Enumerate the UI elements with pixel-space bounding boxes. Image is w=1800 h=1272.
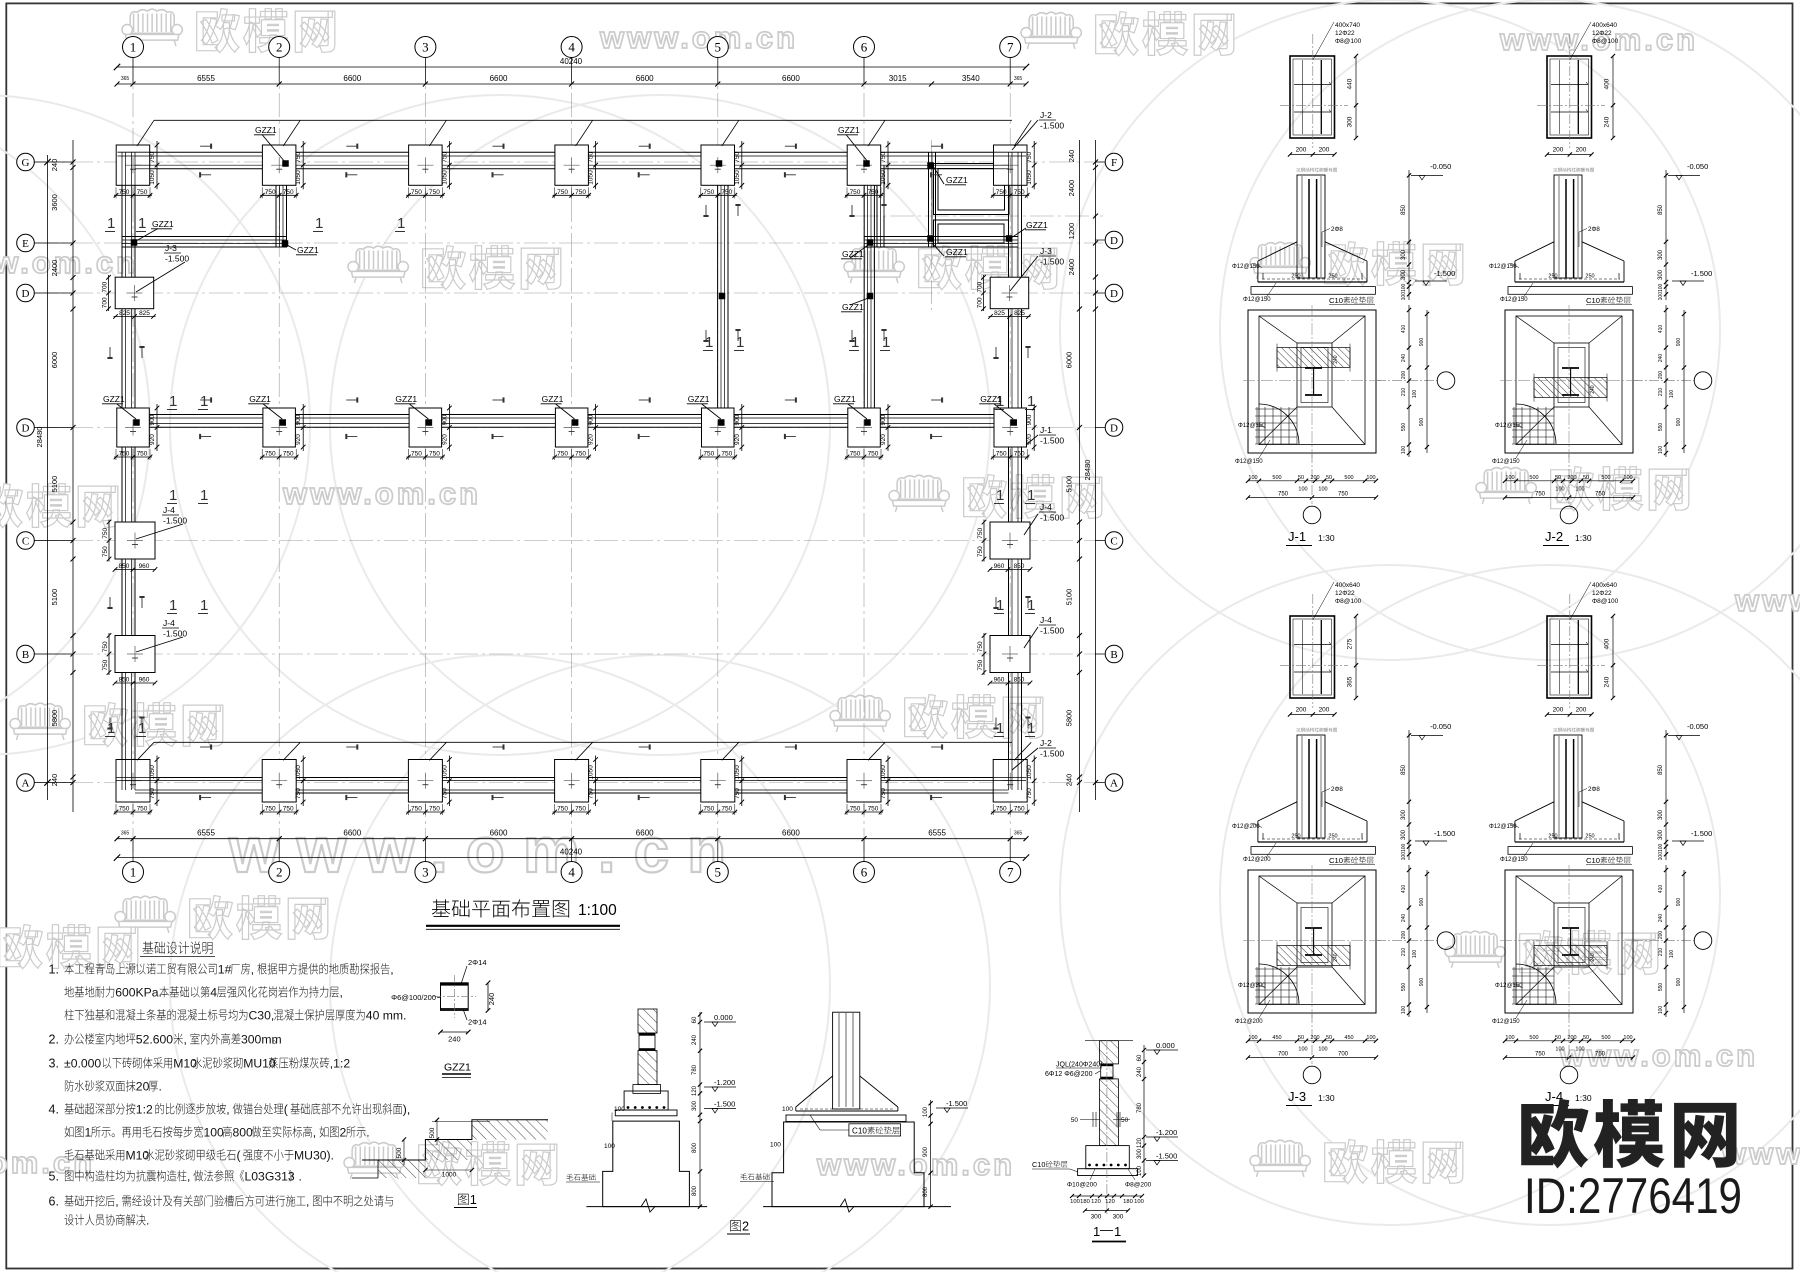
svg-text:850: 850	[119, 563, 130, 570]
svg-text:-1.500: -1.500	[1434, 269, 1455, 278]
svg-text:500: 500	[1529, 475, 1538, 481]
svg-text:240: 240	[1333, 953, 1339, 962]
svg-text:100: 100	[1401, 1006, 1407, 1015]
svg-text:Φ8@100: Φ8@100	[1335, 598, 1362, 605]
svg-text:750: 750	[137, 189, 148, 196]
svg-text:www.om.cn: www.om.cn	[816, 1147, 1015, 1182]
svg-text:(: (	[237, 1149, 241, 1163]
svg-text:Φ12@150: Φ12@150	[1243, 297, 1271, 303]
svg-text:,: ,	[390, 963, 393, 977]
svg-text:4: 4	[568, 40, 575, 55]
svg-text:240: 240	[448, 1035, 461, 1044]
svg-text:100: 100	[1623, 1035, 1632, 1041]
svg-text:750: 750	[283, 451, 294, 458]
svg-text:750: 750	[102, 659, 109, 670]
svg-text:200: 200	[1401, 931, 1407, 940]
svg-text:750: 750	[880, 151, 887, 162]
svg-text:100: 100	[1669, 950, 1675, 959]
svg-text:J-3: J-3	[1040, 246, 1052, 256]
svg-text:J-4: J-4	[163, 618, 175, 628]
svg-text:MU30).: MU30).	[294, 1149, 334, 1163]
svg-text:900: 900	[1026, 414, 1033, 425]
svg-text:750: 750	[721, 451, 732, 458]
svg-text:100: 100	[1366, 475, 1375, 481]
svg-text:700: 700	[977, 297, 984, 308]
svg-text:700: 700	[102, 281, 109, 292]
svg-text:1050: 1050	[149, 765, 156, 780]
svg-text:960: 960	[139, 677, 150, 684]
svg-text:750: 750	[1595, 1052, 1606, 1058]
svg-text:2Φ8: 2Φ8	[1331, 786, 1343, 793]
svg-text:28480: 28480	[35, 427, 44, 448]
svg-text:240: 240	[1137, 1066, 1143, 1077]
svg-text:750: 750	[721, 806, 732, 813]
svg-text:1050: 1050	[588, 765, 595, 780]
svg-text:1#: 1#	[218, 963, 232, 977]
svg-text:850: 850	[1014, 563, 1025, 570]
svg-text:2Φ8: 2Φ8	[1588, 786, 1600, 793]
svg-text:100: 100	[204, 1126, 225, 1140]
svg-text:6600: 6600	[490, 829, 508, 838]
svg-text:750: 750	[703, 806, 714, 813]
svg-text:750: 750	[1278, 492, 1289, 498]
svg-text:550: 550	[1658, 983, 1664, 992]
svg-text:240: 240	[50, 159, 59, 172]
svg-text:100: 100	[1555, 487, 1564, 493]
svg-text:240: 240	[692, 1034, 698, 1045]
svg-text:GZZ1: GZZ1	[395, 394, 417, 404]
svg-text:750: 750	[295, 788, 302, 799]
svg-text:1050: 1050	[441, 170, 448, 185]
svg-text:300: 300	[1658, 809, 1664, 820]
svg-text:www.om.cn: www.om.cn	[599, 20, 798, 55]
svg-text:www.om.cn: www.om.cn	[1559, 1038, 1758, 1073]
svg-text:-1.500: -1.500	[1691, 829, 1712, 838]
svg-text:750: 750	[588, 151, 595, 162]
svg-text:6000: 6000	[50, 352, 59, 369]
svg-text:-1.500: -1.500	[1156, 1152, 1177, 1161]
svg-text:920: 920	[149, 434, 156, 445]
svg-text:3: 3	[422, 865, 429, 880]
svg-text:300: 300	[1658, 249, 1664, 260]
svg-text:750: 750	[996, 806, 1007, 813]
svg-text:750: 750	[149, 788, 156, 799]
svg-text:Φ12@150: Φ12@150	[1495, 983, 1523, 989]
svg-text:240: 240	[1401, 354, 1407, 363]
svg-text:GZZ1: GZZ1	[103, 394, 125, 404]
svg-text:750: 750	[977, 659, 984, 670]
svg-text:,1:2: ,1:2	[330, 1057, 351, 1071]
svg-text:200: 200	[1553, 707, 1564, 714]
svg-text:100: 100	[923, 1106, 929, 1117]
svg-text:,: ,	[313, 1126, 316, 1140]
svg-text:700: 700	[102, 297, 109, 308]
svg-text:300: 300	[1091, 1214, 1102, 1221]
svg-text:1: 1	[138, 215, 146, 232]
svg-text:300: 300	[1401, 829, 1407, 840]
svg-text:750: 750	[411, 806, 422, 813]
svg-text:900: 900	[1676, 418, 1682, 427]
svg-text:B: B	[1110, 649, 1117, 661]
svg-text:5100: 5100	[50, 589, 59, 606]
svg-text:850: 850	[119, 677, 130, 684]
svg-text:500: 500	[1601, 475, 1610, 481]
svg-text:2Φ8: 2Φ8	[1588, 226, 1600, 233]
svg-text:1050: 1050	[295, 765, 302, 780]
svg-text:5100: 5100	[1065, 476, 1074, 493]
svg-text:12Φ22: 12Φ22	[1592, 30, 1612, 37]
svg-text:750: 750	[557, 806, 568, 813]
svg-text:100: 100	[1070, 1199, 1080, 1205]
svg-text:750: 750	[996, 189, 1007, 196]
svg-text:900: 900	[295, 414, 302, 425]
svg-text:Φ8@100: Φ8@100	[1592, 598, 1619, 605]
svg-text:500: 500	[1529, 1035, 1538, 1041]
svg-text:J-2: J-2	[1040, 738, 1052, 748]
svg-text:-1.500: -1.500	[1040, 513, 1064, 523]
svg-text:2400: 2400	[1067, 180, 1076, 197]
svg-text:240: 240	[487, 993, 496, 1006]
svg-text:100: 100	[1318, 1047, 1327, 1053]
svg-text:300: 300	[1113, 1214, 1124, 1221]
svg-text:50: 50	[1583, 1035, 1589, 1041]
svg-text:D: D	[22, 288, 30, 300]
svg-text:Φ12@200: Φ12@200	[1235, 1019, 1263, 1025]
svg-text:-0.050: -0.050	[1430, 162, 1451, 171]
svg-text:,: ,	[226, 1103, 229, 1117]
svg-text:100: 100	[770, 1142, 781, 1149]
svg-text:825: 825	[139, 310, 150, 317]
svg-text:960: 960	[139, 563, 150, 570]
svg-text:400x640: 400x640	[1335, 582, 1360, 589]
svg-text:2: 2	[742, 1220, 749, 1234]
svg-text:180: 180	[1123, 1199, 1133, 1205]
svg-text:50: 50	[1326, 475, 1332, 481]
svg-text:E: E	[22, 238, 29, 250]
svg-text:100: 100	[1575, 487, 1584, 493]
svg-text:750: 750	[441, 788, 448, 799]
svg-text:240: 240	[1401, 914, 1407, 923]
svg-text:JQL(240Φ240): JQL(240Φ240)	[1056, 1062, 1102, 1069]
svg-text:750: 750	[1595, 492, 1606, 498]
svg-text:GZZ1: GZZ1	[255, 125, 277, 135]
svg-text:750: 750	[1535, 1052, 1546, 1058]
svg-text:440: 440	[1347, 78, 1354, 89]
svg-text:800: 800	[923, 1186, 929, 1197]
svg-text:J-4: J-4	[1040, 615, 1052, 625]
svg-text:750: 750	[102, 527, 109, 538]
svg-text:410: 410	[1401, 885, 1407, 894]
svg-text:900: 900	[880, 414, 887, 425]
svg-text:700: 700	[977, 281, 984, 292]
svg-text:750: 750	[721, 189, 732, 196]
svg-text:5: 5	[715, 40, 722, 55]
svg-text:1050: 1050	[295, 170, 302, 185]
svg-text:900: 900	[149, 414, 156, 425]
svg-text:Φ12@150: Φ12@150	[1500, 857, 1528, 863]
svg-text:www.om.cn: www.om.cn	[1734, 583, 1800, 618]
svg-text:1: 1	[736, 334, 744, 351]
svg-text:200: 200	[1319, 147, 1330, 154]
svg-text:500: 500	[1344, 475, 1353, 481]
svg-text:6.: 6.	[49, 1195, 59, 1209]
svg-text:D: D	[22, 423, 30, 435]
svg-text:-1.500: -1.500	[165, 254, 189, 264]
svg-text:4: 4	[210, 986, 217, 1000]
svg-text:100100: 100100	[1401, 283, 1407, 300]
svg-text:100: 100	[1137, 1165, 1143, 1176]
svg-text:700: 700	[1278, 1052, 1289, 1058]
svg-text:750: 750	[102, 546, 109, 557]
svg-text:6555: 6555	[197, 74, 215, 83]
svg-text:300: 300	[1658, 829, 1664, 840]
svg-text:.: .	[159, 1080, 162, 1094]
svg-text:40240: 40240	[560, 848, 583, 857]
svg-text:100: 100	[1623, 475, 1632, 481]
svg-text:300: 300	[1347, 116, 1354, 127]
svg-text:3540: 3540	[962, 74, 980, 83]
svg-text:A: A	[1110, 778, 1118, 790]
svg-text:250: 250	[1548, 274, 1557, 280]
svg-text:1050: 1050	[441, 765, 448, 780]
svg-text:750: 750	[441, 151, 448, 162]
svg-text:1000: 1000	[442, 1172, 457, 1179]
svg-text:1: 1	[851, 334, 859, 351]
svg-text:Φ10@200: Φ10@200	[1067, 1182, 1097, 1189]
svg-text:900: 900	[923, 1146, 929, 1157]
svg-text:.: .	[366, 1126, 369, 1140]
svg-text:2: 2	[276, 865, 283, 880]
svg-text:Φ12@200: Φ12@200	[1243, 857, 1271, 863]
svg-text:C: C	[22, 536, 29, 548]
svg-text:410: 410	[1401, 325, 1407, 334]
svg-text:1: 1	[138, 720, 146, 737]
svg-text:200: 200	[1576, 147, 1587, 154]
svg-text:100: 100	[1658, 446, 1664, 455]
svg-text:6600: 6600	[343, 74, 361, 83]
svg-text:400x740: 400x740	[1335, 22, 1360, 29]
svg-text:J-4: J-4	[163, 505, 175, 515]
svg-text:www.om.cn: www.om.cn	[228, 814, 744, 886]
svg-text:365: 365	[1347, 676, 1354, 687]
svg-text:0.000: 0.000	[714, 1013, 733, 1022]
svg-text:12Φ22: 12Φ22	[1335, 30, 1355, 37]
svg-text:750: 750	[1026, 788, 1033, 799]
svg-text:750: 750	[429, 189, 440, 196]
svg-text:1: 1	[169, 597, 177, 614]
svg-text:240: 240	[1658, 914, 1664, 923]
svg-text:100: 100	[1669, 390, 1675, 399]
svg-text:120: 120	[1091, 1199, 1101, 1205]
svg-text:GZZ1: GZZ1	[542, 394, 564, 404]
svg-text:200: 200	[1319, 707, 1330, 714]
svg-text:1050: 1050	[1026, 170, 1033, 185]
svg-text:2400: 2400	[50, 260, 59, 277]
svg-text:4.: 4.	[49, 1103, 59, 1117]
svg-text:120: 120	[1105, 1199, 1115, 1205]
svg-text:12Φ22: 12Φ22	[1335, 590, 1355, 597]
svg-text:750: 750	[868, 806, 879, 813]
svg-text:5.: 5.	[49, 1170, 59, 1184]
svg-text:100: 100	[1575, 1047, 1584, 1053]
svg-text:Φ8@100: Φ8@100	[1592, 38, 1619, 45]
svg-text:100100: 100100	[1658, 843, 1664, 860]
svg-text:1: 1	[200, 393, 208, 410]
svg-text:750: 750	[703, 451, 714, 458]
svg-text:750: 750	[575, 451, 586, 458]
svg-text:1: 1	[130, 865, 137, 880]
svg-text:-1.500: -1.500	[1040, 626, 1064, 636]
svg-text:,: ,	[340, 986, 343, 1000]
svg-text:GZZ1: GZZ1	[838, 125, 860, 135]
svg-text:GZZ1: GZZ1	[152, 219, 174, 229]
svg-text:240: 240	[50, 774, 59, 787]
svg-text:C10: C10	[1329, 856, 1343, 865]
svg-text:400: 400	[1604, 78, 1611, 89]
svg-text:300: 300	[1401, 269, 1407, 280]
svg-text:960: 960	[994, 677, 1005, 684]
svg-text:4: 4	[568, 865, 575, 880]
svg-text:900: 900	[1419, 898, 1425, 907]
svg-text:365: 365	[121, 76, 130, 82]
svg-text:180: 180	[1080, 1199, 1090, 1205]
svg-text:750: 750	[102, 641, 109, 652]
svg-text:2400: 2400	[1067, 259, 1076, 276]
svg-text:100: 100	[1248, 475, 1257, 481]
svg-text:750: 750	[868, 451, 879, 458]
svg-text:250: 250	[1291, 834, 1300, 840]
svg-text:100: 100	[1555, 1047, 1564, 1053]
svg-text:1: 1	[169, 393, 177, 410]
svg-text:J-2: J-2	[1545, 529, 1563, 544]
svg-text:1050: 1050	[734, 170, 741, 185]
svg-text:1.: 1.	[49, 963, 59, 977]
svg-text:6600: 6600	[343, 829, 361, 838]
svg-text:240: 240	[1333, 355, 1339, 364]
svg-text:920: 920	[295, 434, 302, 445]
svg-text:750: 750	[411, 189, 422, 196]
svg-text:C10: C10	[1329, 296, 1343, 305]
svg-text:750: 750	[734, 151, 741, 162]
svg-text:,: ,	[184, 1033, 187, 1047]
svg-text:250: 250	[1328, 274, 1337, 280]
svg-text:365: 365	[1014, 831, 1023, 837]
svg-text:J-3: J-3	[1288, 1089, 1306, 1104]
svg-text:Φ12@200: Φ12@200	[1238, 983, 1266, 989]
svg-text:1200: 1200	[1067, 223, 1076, 240]
svg-text:-1.200: -1.200	[1156, 1128, 1177, 1137]
svg-text:100: 100	[1505, 1035, 1514, 1041]
svg-text:C30,: C30,	[249, 1009, 275, 1023]
svg-text:750: 750	[850, 451, 861, 458]
svg-text:1: 1	[996, 720, 1004, 737]
svg-text:1: 1	[882, 334, 890, 351]
svg-text:-1.500: -1.500	[1040, 121, 1064, 131]
svg-text:1: 1	[130, 40, 137, 55]
svg-text:200: 200	[1658, 931, 1664, 940]
svg-text:50: 50	[1555, 475, 1561, 481]
svg-text:2Φ14: 2Φ14	[468, 958, 487, 967]
svg-text:750: 750	[880, 788, 887, 799]
svg-text:50: 50	[1298, 1035, 1304, 1041]
svg-text:1: 1	[996, 487, 1004, 504]
svg-text:,: ,	[115, 1195, 118, 1209]
svg-text:780: 780	[692, 1064, 698, 1075]
svg-text:400: 400	[1604, 638, 1611, 649]
svg-text:500: 500	[429, 1127, 436, 1138]
svg-text:Φ12@150: Φ12@150	[1238, 423, 1266, 429]
svg-text:6: 6	[861, 40, 868, 55]
svg-text:100: 100	[1298, 1047, 1307, 1053]
svg-text:900: 900	[441, 414, 448, 425]
svg-text:6: 6	[861, 865, 868, 880]
svg-text:100100: 100100	[1658, 283, 1664, 300]
svg-text:750: 750	[137, 451, 148, 458]
svg-text:1: 1	[107, 215, 115, 232]
svg-text:750: 750	[411, 451, 422, 458]
svg-text:-1.500: -1.500	[1040, 436, 1064, 446]
svg-text:750: 750	[977, 546, 984, 557]
svg-text:50: 50	[1583, 475, 1589, 481]
svg-text:410: 410	[1658, 885, 1664, 894]
svg-text:750: 750	[977, 527, 984, 538]
svg-text:750: 750	[868, 189, 879, 196]
svg-text:1: 1	[85, 1126, 92, 1140]
svg-text:100: 100	[1401, 446, 1407, 455]
svg-text:750: 750	[1026, 151, 1033, 162]
svg-text:100: 100	[1134, 1199, 1144, 1205]
svg-text:1050: 1050	[1026, 765, 1033, 780]
svg-text:-1.500: -1.500	[1434, 829, 1455, 838]
svg-text:,: ,	[251, 963, 254, 977]
svg-text:6000: 6000	[1065, 352, 1074, 369]
svg-text:240: 240	[1067, 150, 1076, 163]
svg-text:7: 7	[1007, 40, 1014, 55]
svg-text:M10: M10	[173, 1057, 197, 1071]
svg-text:100: 100	[782, 1106, 793, 1113]
svg-text:550: 550	[1401, 423, 1407, 432]
svg-text:-1.500: -1.500	[714, 1100, 735, 1109]
svg-text:600KPa.: 600KPa.	[115, 986, 162, 1000]
svg-text:210: 210	[1658, 948, 1664, 957]
svg-text:Φ12@150: Φ12@150	[1500, 297, 1528, 303]
svg-text:100: 100	[1366, 1035, 1375, 1041]
svg-text:1: 1	[470, 1193, 477, 1207]
svg-text:(: (	[284, 1103, 288, 1117]
svg-text:900: 900	[734, 414, 741, 425]
svg-text:1: 1	[1027, 487, 1035, 504]
svg-text:850: 850	[1658, 764, 1664, 775]
svg-text:300mm: 300mm	[241, 1033, 282, 1047]
svg-text:100: 100	[1248, 1035, 1257, 1041]
svg-text:400x640: 400x640	[1592, 582, 1617, 589]
svg-text:D: D	[1110, 235, 1118, 247]
svg-text:825: 825	[994, 310, 1005, 317]
svg-text:200: 200	[1296, 147, 1307, 154]
svg-text:1:100: 1:100	[578, 902, 617, 919]
svg-text:GZZ1: GZZ1	[297, 245, 319, 255]
svg-text:750: 750	[850, 189, 861, 196]
svg-text:850: 850	[1014, 677, 1025, 684]
svg-text:275: 275	[1347, 638, 1354, 649]
svg-text:850: 850	[1658, 204, 1664, 215]
svg-text:1050: 1050	[588, 170, 595, 185]
svg-text:-0.050: -0.050	[1430, 722, 1451, 731]
svg-text:200: 200	[1576, 707, 1587, 714]
svg-text:750: 750	[557, 189, 568, 196]
svg-text:-0.050: -0.050	[1687, 722, 1708, 731]
svg-text:B: B	[22, 649, 29, 661]
